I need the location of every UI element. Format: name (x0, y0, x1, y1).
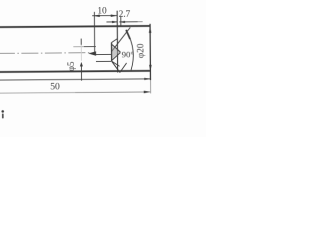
wire: cone lower-left arm (112, 61, 120, 72)
svg-text:90°: 90° (122, 49, 135, 59)
wire: right end face and dia-20 dimension line (149, 24, 151, 80)
node: hole wall big left arrowhead (88, 51, 96, 55)
wire: extension line V4 (120, 17, 122, 26)
wire: funnel bottom slant (112, 61, 120, 66)
wire: countersink funnel base (111, 43, 113, 62)
node: 2.7 dim right arrowhead points left (119, 21, 125, 23)
wire: part top edge (0, 26, 150, 27)
wire: hole upper wall faded (73, 46, 83, 48)
wire: extension line V1 (93, 12, 95, 54)
wire: funnel top slant (111, 38, 117, 42)
node: 10 dim left arrowhead (93, 15, 99, 18)
svg-text:50: 50 (50, 81, 60, 92)
wire: 2.7 dim left tail (106, 21, 117, 23)
node: thick arc arrow stroke (126, 30, 130, 39)
wire: lower dimension line at y79 (0, 79, 150, 80)
svg-text:φ20: φ20 (137, 43, 147, 58)
wire: hole lower wall (96, 60, 111, 62)
svg-text:φ5: φ5 (66, 61, 76, 71)
node: centerline axis dash-dot (0, 52, 90, 55)
wire: 2.7 dim right tail (119, 21, 137, 23)
wire: hole mid wall (95, 53, 111, 55)
node: stray mark at left image edge (1, 110, 4, 113)
node: 50 dim right arrowhead (144, 91, 151, 94)
node: 2.7 dim left arrowhead points right (112, 21, 118, 23)
node: dia-20 bottom arrowhead (149, 65, 152, 72)
wire: 10 dimension line (92, 15, 117, 17)
wire: angle dimension arc (127, 31, 134, 70)
wire: cone lower-right arm (120, 63, 127, 72)
node: 10 dim right arrowhead (111, 14, 117, 17)
node: dia-5 up arrowhead (80, 62, 83, 67)
node: countersink apex wedge outline (112, 44, 120, 60)
node: y79 line right arrowhead (144, 78, 150, 80)
wire: long slant to top edge (111, 27, 130, 51)
wire: 50 dimension line at y92 (0, 92, 75, 95)
node: dia-20 top arrowhead (149, 27, 152, 33)
svg-text:2.7: 2.7 (119, 10, 131, 20)
wire: dia-5 dimension line (80, 39, 82, 45)
wire: part bottom edge (0, 71, 151, 72)
wire: extension line V2 hole axis (116, 11, 118, 73)
svg-text:10: 10 (97, 7, 107, 17)
